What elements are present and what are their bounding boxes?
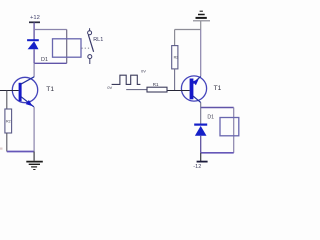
- wire +12 to top junction: [33, 22, 35, 40]
- wire diode right bottom: [200, 136, 202, 153]
- square wave symbol: [112, 75, 141, 84]
- edge artifact: [0, 148, 3, 150]
- wire to ground: [33, 152, 35, 161]
- relay coil box right: [220, 118, 239, 136]
- resistor R1 box: [147, 87, 167, 92]
- ground left: [26, 162, 43, 170]
- ground top right wide base line: [193, 20, 210, 22]
- switch RL1 bottom contact circle: [88, 55, 92, 59]
- wire R2 right to base: [174, 69, 176, 91]
- wire rail to collector: [33, 63, 35, 77]
- switch RL1 top stub: [89, 28, 91, 31]
- svg-text:D1: D1: [207, 114, 214, 120]
- wire R2 bottom: [6, 133, 8, 152]
- wire bottom rail (horizontal): [34, 62, 67, 64]
- wire to -12 rail: [200, 153, 202, 161]
- switch RL1 bottom stub: [89, 59, 91, 64]
- svg-text:RL1: RL1: [93, 37, 103, 43]
- svg-text:R2: R2: [174, 56, 179, 60]
- svg-text:0V: 0V: [141, 69, 146, 74]
- wire coil drop vertical: [66, 30, 68, 64]
- diode D1 right triangle: [195, 126, 207, 136]
- wire top horizontal coil loop right: [201, 107, 234, 109]
- wire to R2 right: [174, 30, 176, 46]
- transistor T1 right base bar: [190, 79, 194, 100]
- svg-text:T1: T1: [214, 85, 222, 92]
- wire collector to diode right: [200, 102, 202, 124]
- resistor R2 left box: [5, 109, 12, 133]
- input wire: [126, 89, 147, 91]
- diode D1 right cathode bar: [194, 123, 207, 125]
- transistor T1 right emitter arrow: [192, 79, 198, 85]
- wire coil loop right vertical: [233, 108, 235, 153]
- power -12 rail bar: [197, 161, 208, 163]
- svg-text:T1: T1: [46, 86, 54, 93]
- svg-text:+12: +12: [30, 15, 40, 21]
- transistor T1 left emitter lead: [21, 97, 34, 107]
- transistor T1 right circle: [181, 76, 206, 101]
- resistor R2 right box: [172, 46, 178, 69]
- svg-text:R1: R1: [153, 82, 159, 87]
- wire base to R2 drop: [6, 91, 8, 110]
- wire emitter vertical: [33, 107, 35, 152]
- transistor T1 right collector lead: [193, 96, 201, 102]
- power +12 rail bar: [29, 21, 40, 23]
- diode D1 left cathode bar: [27, 39, 39, 41]
- svg-text:D1: D1: [41, 57, 48, 63]
- wire emitter vertical right: [200, 30, 202, 77]
- base wire left: [0, 90, 19, 92]
- ground top right: [196, 11, 207, 18]
- wire diode to bottom rail: [33, 49, 35, 63]
- svg-text:0V: 0V: [107, 85, 112, 90]
- transistor T1 right emitter lead: [193, 76, 201, 83]
- diode D1 left triangle: [28, 41, 39, 49]
- switch RL1 top contact circle: [88, 31, 92, 35]
- wire top junction to coil (horizontal): [34, 29, 67, 31]
- switch RL1 blade: [88, 35, 93, 52]
- transistor T1 left emitter arrow: [26, 100, 33, 106]
- wire bottom horizontal to emitter: [7, 151, 34, 153]
- wire top horizontal right: [175, 29, 201, 31]
- wire ground stem down: [200, 21, 202, 30]
- wire bottom horizontal coil loop right: [201, 152, 234, 154]
- transistor T1 left circle: [12, 77, 37, 102]
- transistor T1 left collector lead: [21, 77, 34, 84]
- svg-text:-12: -12: [193, 164, 201, 170]
- transistor T1 left base bar: [19, 83, 22, 101]
- svg-text:R2: R2: [6, 120, 11, 124]
- base wire right: [167, 90, 190, 92]
- relay link dotted line: [82, 47, 91, 49]
- relay coil box left: [53, 39, 82, 57]
